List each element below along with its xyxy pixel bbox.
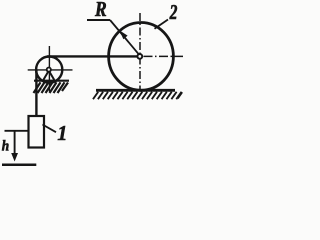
- wheel horizontal centerline (right of hub): [144, 55, 184, 57]
- h dimension tick line: [5, 130, 29, 132]
- rope down from pulley to weight: [35, 70, 37, 116]
- R leader line to hub: [110, 20, 139, 55]
- weight 1 (rectangle): [29, 116, 45, 148]
- label 1: [58, 126, 66, 140]
- leader line of label 2: [155, 20, 169, 29]
- ground hatching under wheel: [93, 92, 182, 99]
- label h: [2, 140, 9, 151]
- rope from pulley to wheel axle: [47, 55, 138, 57]
- pulley vertical centerline: [48, 46, 50, 92]
- R leader underline: [87, 19, 110, 21]
- pulley horizontal centerline: [28, 69, 73, 71]
- label R: [95, 2, 106, 16]
- pulley circle: [36, 57, 62, 83]
- R radius arrowhead at wheel rim: [119, 30, 127, 39]
- pulley bracket left leg: [43, 72, 48, 81]
- pulley hub: [47, 68, 51, 72]
- wheel vertical centerline: [139, 13, 141, 89]
- pulley bracket right leg: [49, 72, 54, 81]
- h dimension vertical line: [14, 131, 16, 155]
- label 2: [170, 5, 178, 19]
- wheel hub (axle): [137, 54, 142, 59]
- ground line under wheel: [96, 89, 175, 92]
- roller wheel 2 (large circle): [109, 23, 174, 91]
- bracket hatching: [34, 82, 69, 93]
- h dimension arrowhead: [11, 153, 18, 162]
- floor reference line: [2, 164, 36, 167]
- bracket base line: [34, 80, 69, 82]
- leader line of label 1: [43, 125, 57, 133]
